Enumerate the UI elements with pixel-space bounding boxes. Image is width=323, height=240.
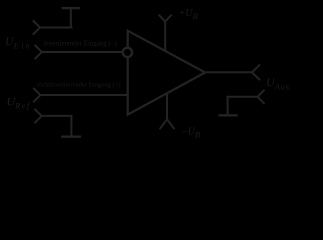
positive supply pin xyxy=(164,21,166,51)
ground G4 stem xyxy=(70,116,72,137)
op-amp U1 triangle xyxy=(128,31,206,115)
wire: F4 to ground G4 xyxy=(42,115,72,117)
negative supply pin xyxy=(166,93,168,119)
output ground terminal fork F8 xyxy=(258,90,264,103)
wire: F8 to ground G8 xyxy=(228,96,258,98)
inverting input bubble xyxy=(123,48,132,57)
ground G1 stem xyxy=(70,8,72,27)
ground G1 bar xyxy=(63,7,79,9)
wire: ground G1 to terminal fork F1 xyxy=(40,27,72,29)
output terminal fork F7 xyxy=(252,65,259,79)
supply terminal fork F5 xyxy=(159,15,171,21)
wire: op-amp output xyxy=(205,71,252,73)
terminal fork F1 xyxy=(34,21,41,34)
svg-text:nichtinvertierender Eingang (+: nichtinvertierender Eingang (+) xyxy=(37,81,121,88)
supply terminal fork F6 xyxy=(160,119,174,128)
terminal fork F2 (inverting input) xyxy=(35,46,42,59)
wire: F2 to inverting input bubble xyxy=(42,51,123,53)
ground G4 bar xyxy=(62,135,80,137)
wire: F3 to op-amp non-inverting input xyxy=(40,94,127,96)
terminal fork F4 xyxy=(35,109,42,122)
ground G8 stem xyxy=(227,97,229,116)
ground G8 bar xyxy=(220,114,237,116)
terminal fork F3 (non-inverting input) xyxy=(34,89,41,102)
svg-text:invertierender Eingang (−): invertierender Eingang (−) xyxy=(44,40,117,47)
